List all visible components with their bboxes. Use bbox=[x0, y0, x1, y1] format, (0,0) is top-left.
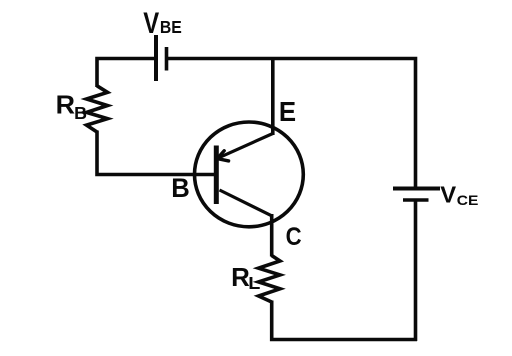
svg-text:E: E bbox=[279, 96, 296, 127]
svg-text:V: V bbox=[143, 7, 159, 40]
wire left-lower and base wire (RB down, right to transistor base) bbox=[97, 131, 216, 175]
wire top (VBE to top-right corner) bbox=[167, 59, 416, 189]
transistor Q1 emitter arrow bbox=[217, 151, 228, 161]
svg-text:V: V bbox=[440, 181, 456, 207]
svg-text:CE: CE bbox=[457, 193, 479, 208]
transistor Q1 body circle bbox=[195, 122, 304, 227]
battery VCE short plate bbox=[403, 198, 429, 202]
svg-text:B: B bbox=[74, 104, 87, 123]
wire right-lower (VCE to bottom-right corner) bbox=[414, 200, 418, 341]
svg-text:R: R bbox=[231, 264, 250, 292]
battery VBE short plate bbox=[165, 47, 169, 71]
battery VBE long plate bbox=[154, 35, 158, 81]
svg-text:BE: BE bbox=[160, 17, 182, 37]
svg-text:B: B bbox=[171, 173, 190, 203]
wire collector (transistor down to RL) bbox=[270, 214, 274, 257]
battery VCE long plate bbox=[393, 187, 440, 191]
label RB bbox=[56, 92, 87, 123]
svg-text:R: R bbox=[56, 92, 76, 120]
resistor RL bbox=[259, 256, 281, 303]
label RL bbox=[231, 264, 260, 293]
label VCE bbox=[440, 181, 478, 208]
svg-text:L: L bbox=[248, 273, 260, 293]
wire emitter (top wire down to transistor) bbox=[271, 59, 275, 136]
resistor RB bbox=[87, 86, 108, 132]
wire top-left (VBE to top-left corner, down to RB) bbox=[97, 59, 156, 88]
wire bottom (RL down, right to VCE branch) bbox=[272, 301, 417, 340]
transistor Q1 emitter diagonal bbox=[217, 134, 273, 159]
transistor Q1 base bar bbox=[214, 146, 219, 205]
label VBE bbox=[143, 7, 181, 40]
transistor Q1 collector diagonal bbox=[220, 190, 272, 216]
svg-text:C: C bbox=[286, 224, 302, 251]
